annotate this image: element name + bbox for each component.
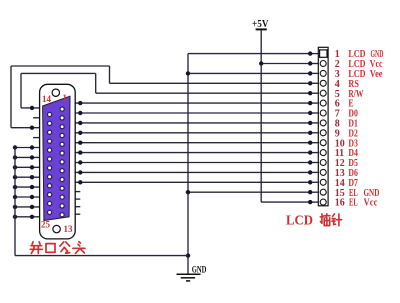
svg-text:EL: EL [349, 198, 358, 209]
svg-text:25: 25 [41, 220, 51, 230]
svg-text:+5V: +5V [252, 19, 269, 30]
svg-text:LCD: LCD [286, 213, 313, 228]
svg-text:GND: GND [192, 265, 207, 275]
svg-text:16: 16 [335, 198, 345, 209]
svg-text:14: 14 [42, 94, 52, 104]
svg-text:1: 1 [63, 93, 68, 103]
svg-text:Vcc: Vcc [364, 198, 378, 209]
svg-text:Vee: Vee [370, 69, 383, 80]
svg-text:13: 13 [64, 224, 74, 234]
